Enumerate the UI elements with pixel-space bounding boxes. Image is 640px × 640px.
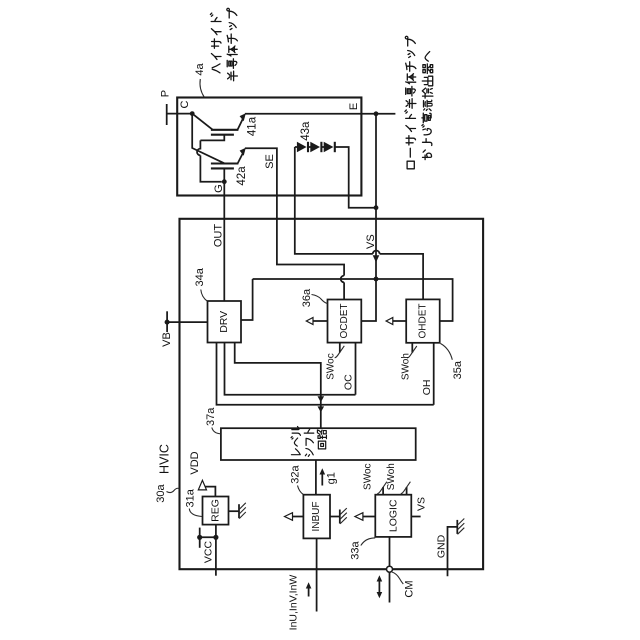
svg-text:42a: 42a	[236, 166, 248, 186]
node C junction dot	[190, 111, 195, 116]
svg-text:LOGIC: LOGIC	[387, 499, 399, 532]
terminal VB stub	[166, 311, 168, 332]
leader CM	[392, 572, 403, 584]
wire DRV right to VS rail	[241, 279, 253, 320]
svg-text:E: E	[348, 103, 360, 110]
svg-text:SWoh: SWoh	[401, 353, 412, 380]
terminal P crossbar	[166, 104, 168, 125]
svg-text:VB: VB	[161, 332, 173, 347]
leader 31a	[189, 509, 202, 517]
leader 32a	[298, 486, 304, 495]
svg-text:31a: 31a	[184, 488, 196, 507]
INBUF right wire to ground	[330, 516, 340, 518]
LOGIC right VS stub	[411, 516, 420, 518]
svg-text:g1: g1	[325, 472, 337, 484]
svg-text:41a: 41a	[246, 116, 258, 136]
wire Q41a gate lead to G	[197, 135, 224, 182]
svg-text:CM: CM	[403, 580, 415, 597]
node diode/VS junction dot	[374, 205, 379, 210]
transistor Q41a emitter diagonal	[238, 117, 244, 130]
transistor Q41a body bar	[211, 129, 239, 131]
svg-text:SWoc: SWoc	[363, 463, 374, 490]
svg-text:34a: 34a	[194, 267, 206, 286]
regulator block REG U31a	[203, 497, 229, 525]
wire OH	[433, 343, 435, 405]
arrowhead merge lower	[318, 406, 325, 412]
svg-text:VDD: VDD	[189, 451, 201, 474]
wire SE from Q42a emitter	[245, 148, 344, 299]
VDD terminal triangle	[198, 480, 206, 490]
VCC stub	[199, 528, 201, 548]
svg-text:OUT: OUT	[212, 224, 224, 248]
ground at INBUF	[340, 508, 347, 524]
svg-text:InU,InV,InW: InU,InV,InW	[288, 575, 300, 631]
transistor Q42a gate lead	[223, 168, 225, 181]
node VB dot	[165, 320, 170, 325]
diode D1 of 43a	[297, 142, 307, 152]
wire DRV pin2 to OC merge	[225, 343, 356, 395]
wire diode cathode to VS node	[335, 147, 376, 208]
label レベル	[291, 427, 300, 455]
wire DRV pin3 to level shift	[235, 343, 321, 429]
wire GND	[448, 527, 458, 576]
wire VS rail	[253, 279, 453, 321]
transistor Q41a emitter arrowhead	[240, 113, 246, 121]
svg-text:OH: OH	[421, 380, 433, 396]
transistor Q42a emitter arrowhead	[240, 148, 246, 156]
svg-text:43a: 43a	[300, 121, 312, 141]
buffer block INBUF U32a	[303, 495, 330, 539]
node CM open circle	[387, 566, 393, 572]
label シフト	[304, 429, 314, 456]
transistor Q42a body bar	[211, 162, 239, 164]
wire g1 level shift to INBUF	[315, 460, 317, 495]
g1 direction arrow	[321, 474, 323, 486]
label ハイサイド (high-side)	[210, 13, 221, 73]
leader 35a	[441, 344, 453, 360]
svg-text:VCC: VCC	[202, 540, 214, 563]
HVIC box 30a	[180, 219, 484, 569]
svg-text:VS: VS	[415, 497, 427, 511]
transistor Q41a collector diagonal	[192, 114, 212, 130]
transistor Q42a emitter diagonal	[238, 151, 244, 163]
svg-text:35a: 35a	[452, 360, 464, 379]
OHDET left output arrow	[393, 320, 406, 322]
svg-text:OCDET: OCDET	[339, 304, 350, 339]
svg-text:37a: 37a	[205, 407, 217, 426]
leader 33a	[361, 538, 375, 546]
wire diode anode down to OHDET	[295, 147, 423, 299]
wire LOGIC bottom to CM	[389, 537, 391, 603]
svg-text:VS: VS	[365, 234, 377, 249]
transistor Q41a gate bar	[211, 134, 234, 136]
leader 30a	[167, 488, 180, 492]
leader 4a	[200, 79, 204, 97]
logic block LOGIC U33a	[375, 495, 411, 537]
detector block OHDET U35a	[406, 299, 440, 342]
CM double arrow	[378, 580, 380, 594]
OCDET left output arrow	[313, 320, 328, 322]
switch stub SWoh at LOGIC	[406, 487, 408, 495]
svg-text:30a: 30a	[155, 483, 167, 502]
svg-text:36a: 36a	[301, 288, 313, 307]
arrowhead merge upper	[318, 396, 325, 402]
wire VB to DRV	[167, 321, 207, 323]
op-amp block DRV U34a	[208, 301, 242, 343]
transistor Q42a gate bar	[211, 167, 234, 169]
VCC bridge	[200, 536, 216, 538]
svg-text:G: G	[213, 184, 225, 193]
VS arrowhead down	[373, 255, 380, 262]
switch stub SWoc at LOGIC	[382, 487, 384, 495]
level shift circuit box 37a	[221, 428, 416, 460]
diode D3 of 43a	[321, 146, 324, 148]
wire REG right to ground	[229, 510, 240, 512]
detector block OCDET U36a	[328, 300, 362, 343]
LOGIC left arrow	[363, 516, 375, 518]
ground at REG	[239, 503, 246, 519]
svg-text:4a: 4a	[194, 63, 206, 76]
INBUF left arrow	[293, 516, 304, 518]
wire DRV pin1 to OH merge	[217, 343, 434, 405]
svg-text:OHDET: OHDET	[417, 304, 428, 339]
diode chain 43a anode lead	[295, 146, 297, 148]
svg-text:C: C	[179, 100, 191, 108]
label および電流検出器へ (and current detector)	[422, 52, 433, 160]
wire OC	[355, 343, 357, 395]
svg-text:SWoh: SWoh	[386, 463, 397, 490]
high-side chip box 4a	[177, 98, 361, 196]
svg-text:INBUF: INBUF	[311, 502, 322, 532]
svg-text:33a: 33a	[349, 540, 361, 559]
svg-text:HVIC: HVIC	[158, 444, 172, 474]
svg-text:SE: SE	[264, 154, 276, 169]
label ローサイド半導体チップ (to low-side chip)	[405, 36, 416, 168]
input direction arrow	[308, 588, 310, 597]
node VCC dots	[197, 535, 202, 540]
wire SE hump over VS rail	[341, 276, 344, 283]
wire hump over VS vertical	[373, 251, 380, 254]
wire VCC from REG through box edge	[215, 525, 217, 576]
svg-text:SWoc: SWoc	[326, 353, 337, 380]
switch stub SWoc at OCDET	[339, 343, 341, 353]
svg-text:32a: 32a	[290, 464, 302, 483]
node G junction dot	[222, 179, 227, 184]
node VS rail junction dot	[374, 277, 379, 282]
label 回路	[317, 430, 326, 449]
leader 37a	[212, 428, 221, 434]
svg-text:GND: GND	[436, 534, 448, 558]
svg-text:OC: OC	[343, 374, 355, 390]
wire C down to Q42a collector	[192, 114, 224, 164]
switch stub SWoh at OHDET	[411, 343, 413, 353]
svg-text:REG: REG	[210, 499, 222, 522]
svg-text:DRV: DRV	[218, 311, 230, 333]
ground at GND	[457, 519, 464, 535]
wire REG to VDD terminal	[202, 487, 215, 497]
wire E/VS vertical	[361, 114, 376, 321]
label 半導体チップ (semiconductor chip)	[227, 8, 238, 80]
leader 36a	[312, 295, 328, 304]
svg-text:P: P	[160, 90, 172, 97]
wire E rail	[245, 113, 396, 115]
wire P to C	[167, 113, 193, 115]
diode D2 of 43a	[308, 146, 311, 148]
wire input InU to INBUF	[316, 538, 318, 611]
leader 34a	[201, 290, 208, 302]
node E junction dot	[374, 111, 379, 116]
wire OUT (G line into DRV)	[223, 182, 225, 301]
